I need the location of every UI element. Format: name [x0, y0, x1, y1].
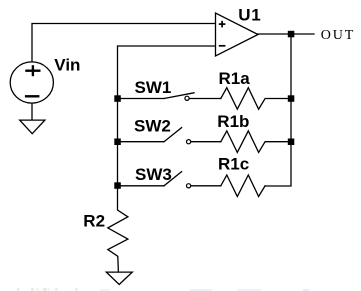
svg-text:R1a: R1a: [219, 69, 251, 88]
svg-text:R2: R2: [83, 211, 105, 230]
svg-text:OUT: OUT: [321, 28, 355, 43]
svg-text:U1: U1: [238, 6, 261, 25]
svg-text:Vin: Vin: [54, 55, 80, 74]
svg-text:SW2: SW2: [134, 117, 171, 136]
svg-text:SW3: SW3: [135, 165, 172, 184]
svg-text:R1b: R1b: [217, 112, 249, 131]
svg-text:R1c: R1c: [218, 155, 249, 174]
svg-text:SW1: SW1: [135, 78, 172, 97]
